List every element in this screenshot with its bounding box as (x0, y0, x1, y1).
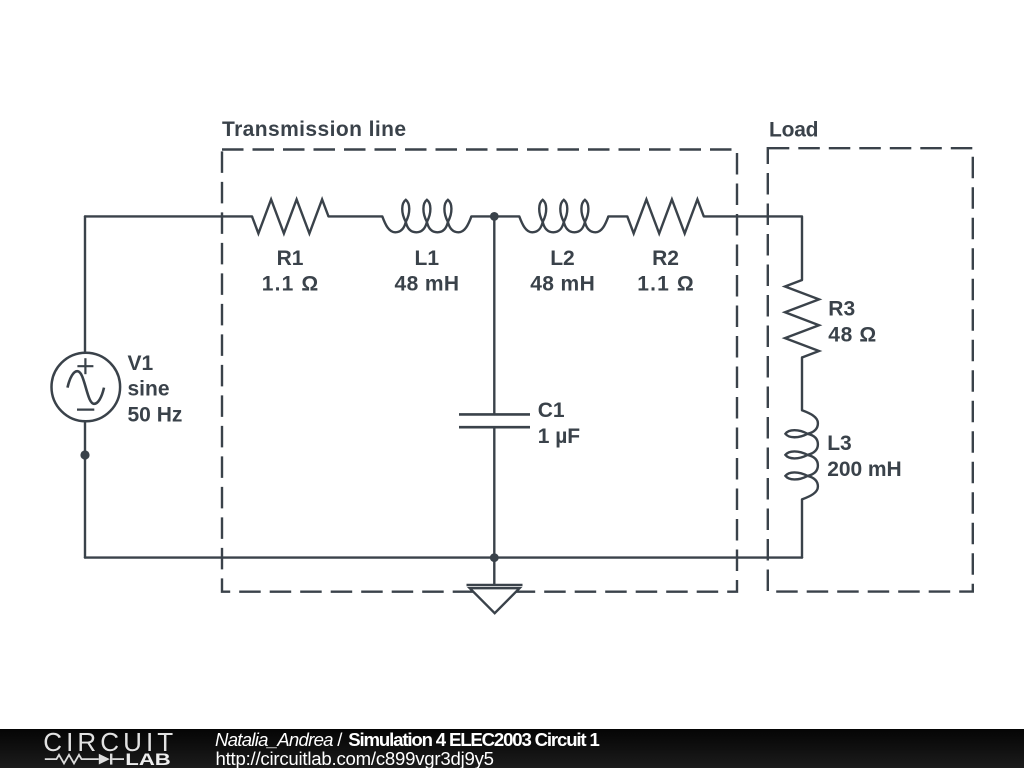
ground stub (493, 558, 495, 585)
svg-text:200 mH: 200 mH (827, 458, 902, 481)
resistor R3 (785, 280, 819, 358)
svg-text:L1: L1 (415, 247, 440, 270)
load dashed box (768, 148, 973, 591)
transmission line dashed box (222, 150, 737, 592)
footer bar (0, 729, 1024, 768)
svg-text:48 mH: 48 mH (530, 273, 595, 296)
svg-text:Natalia_Andrea: Natalia_Andrea (215, 729, 334, 750)
wire left vertical top (V1 top lead) (84, 216, 86, 352)
wire L3 to bottom (801, 499, 803, 557)
svg-text:Simulation 4 ELEC2003 Circuit: Simulation 4 ELEC2003 Circuit 1 (348, 729, 600, 750)
voltage source V1 (52, 353, 121, 422)
wire L1 to L2 (through node) (471, 215, 519, 217)
svg-text:/: / (337, 729, 343, 750)
resistor R2 (627, 199, 704, 233)
svg-text:R2: R2 (652, 247, 679, 270)
svg-text:C1: C1 (538, 399, 565, 422)
svg-text:R1: R1 (277, 247, 304, 270)
svg-text:Transmission line: Transmission line (222, 118, 406, 141)
wire R3 to L3 (801, 358, 803, 411)
svg-text:http://circuitlab.com/c899vgr3: http://circuitlab.com/c899vgr3dj9y5 (216, 748, 495, 768)
svg-text:L2: L2 (550, 247, 575, 270)
logo resistor-diode symbol (45, 754, 124, 765)
wire bottom (85, 556, 802, 558)
svg-text:R3: R3 (828, 297, 855, 320)
svg-text:V1: V1 (128, 352, 154, 375)
svg-text:1 µF: 1 µF (538, 425, 581, 448)
wire L2 to R2 (608, 215, 627, 217)
svg-text:50 Hz: 50 Hz (128, 403, 183, 426)
svg-text:Load: Load (769, 118, 819, 141)
svg-text:1.1 Ω: 1.1 Ω (262, 273, 319, 296)
wire R2 to right corner, down to R3 (704, 216, 802, 280)
node dot junction L1-C1 (490, 212, 499, 221)
wire C1 bottom lead (493, 427, 495, 557)
resistor R1 (252, 199, 329, 233)
capacitor C1 (459, 414, 530, 427)
svg-text:48 Ω: 48 Ω (828, 323, 876, 346)
wire top left (85, 215, 252, 217)
inductor L1 (382, 200, 471, 233)
svg-text:48 mH: 48 mH (395, 273, 460, 296)
wire C1 top lead (493, 216, 495, 414)
inductor L2 (519, 200, 608, 233)
wire R1 to L1 (329, 215, 383, 217)
node dot junction C1-bottom (490, 553, 499, 562)
svg-text:LAB: LAB (125, 750, 171, 768)
inductor L3 (785, 410, 818, 499)
svg-text:sine: sine (128, 378, 170, 401)
node dot V1 bottom (80, 450, 89, 459)
svg-text:L3: L3 (827, 432, 852, 455)
wire left vertical bottom (V1 bottom lead) (84, 421, 86, 557)
svg-text:1.1 Ω: 1.1 Ω (637, 273, 694, 296)
ground symbol (467, 585, 523, 613)
